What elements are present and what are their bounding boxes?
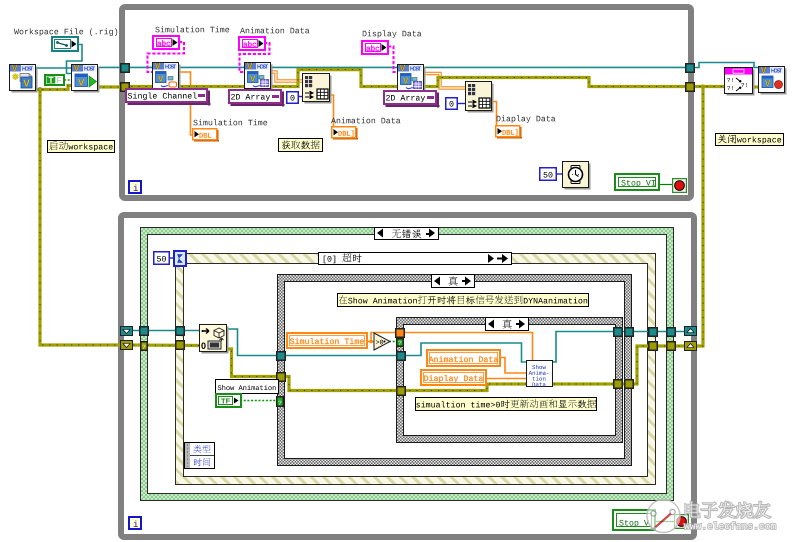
wire string sim time bbox=[148, 42, 185, 72]
tunnel error event right bbox=[648, 341, 658, 351]
boolean control Show Animation bbox=[215, 393, 242, 408]
int constant 50 (wait) bbox=[539, 167, 558, 182]
wire TF to start bbox=[64, 79, 72, 81]
wire error vertical to loop2 bbox=[690, 87, 703, 347]
event structure (diagonal stripe border) bbox=[175, 253, 656, 485]
wire sim time to tunnel bbox=[371, 333, 397, 342]
greater than zero node bbox=[373, 332, 392, 352]
wire stop_vi bbox=[658, 184, 674, 186]
svg-text:V: V bbox=[155, 62, 161, 71]
while loop 1 (top) bbox=[119, 4, 694, 201]
wire ref out to SR bbox=[551, 332, 690, 363]
combo constant 2D Array (1) bbox=[228, 89, 285, 107]
subVI: get Animation Data bbox=[244, 62, 273, 91]
while loop 2 (bottom) bbox=[118, 212, 697, 540]
svg-text:HOST: HOST bbox=[410, 66, 422, 72]
boolean control Stop_VI bbox=[614, 173, 660, 191]
svg-text:V: V bbox=[403, 77, 409, 86]
index array node 2 bbox=[465, 81, 494, 113]
wire session to close VI bbox=[692, 63, 759, 68]
comment 启动workspace bbox=[47, 140, 115, 153]
comment 获取数据 bbox=[278, 138, 323, 152]
node Show Animation Data bbox=[526, 360, 553, 387]
svg-text:V: V bbox=[78, 78, 85, 89]
wire >0 to selector bbox=[389, 341, 396, 343]
orange label Simulation Time bbox=[286, 332, 368, 349]
wire 50 timeout bbox=[169, 257, 175, 259]
listbox 类型/时间 bbox=[184, 442, 215, 469]
wire dbl anim bbox=[329, 95, 336, 132]
wire error merge to close bbox=[753, 85, 759, 88]
label Simulation Time (dbl) bbox=[193, 118, 269, 131]
comment simualtion time>0时... bbox=[415, 397, 597, 411]
DBL array indicator Display Data bbox=[495, 125, 522, 139]
wire disp data label to node bbox=[486, 378, 527, 380]
svg-text:V: V bbox=[765, 79, 771, 88]
tunnel teal event left bbox=[175, 326, 185, 336]
svg-text:HOST: HOST bbox=[165, 64, 177, 70]
shift register teal right bbox=[684, 326, 697, 336]
wait ms node bbox=[562, 161, 591, 190]
tunnel error loop1 right bbox=[685, 82, 695, 92]
tunnel error case2 right bbox=[613, 379, 623, 389]
string terminal Animation Data bbox=[238, 36, 266, 51]
label Animation Data (dbl) bbox=[331, 116, 402, 129]
event label [0] 超时 bbox=[318, 252, 512, 265]
wire error tunnel to merge bbox=[692, 85, 726, 88]
svg-text:HOST: HOST bbox=[22, 66, 34, 72]
svg-text:0: 0 bbox=[201, 341, 206, 351]
svg-text:✱: ✱ bbox=[12, 73, 19, 82]
svg-text:V: V bbox=[247, 62, 253, 71]
svg-text:HOST: HOST bbox=[771, 68, 783, 74]
wire stop_v loop2 bbox=[655, 521, 676, 523]
label Simulation Time (top) bbox=[155, 25, 231, 38]
tunnel teal event right bbox=[648, 327, 658, 337]
subVI: DynaKit open workspace bbox=[9, 64, 38, 93]
loop condition terminal (loop2) bbox=[674, 514, 689, 529]
index array node 1 bbox=[302, 73, 332, 104]
int constant 50 (timeout) bbox=[153, 251, 171, 266]
svg-text:V: V bbox=[250, 75, 256, 84]
wire error vi to case1 bbox=[226, 349, 280, 377]
watermark www.elecfans.com bbox=[684, 519, 789, 534]
wire error loop1 b bbox=[422, 78, 690, 87]
subVI: get Display Data bbox=[397, 64, 426, 93]
shift register teal left bbox=[120, 326, 133, 336]
watermark 电子发烧友 text bbox=[683, 500, 793, 522]
wire error start->tunnel bbox=[96, 85, 126, 88]
tunnel error case1 right bbox=[624, 379, 634, 389]
DBL array indicator Animation Data bbox=[331, 126, 358, 140]
wire sim time in case2 bbox=[403, 333, 533, 363]
wire array 2d arr 2 bbox=[423, 74, 467, 89]
tunnel teal case2 left bbox=[396, 351, 406, 361]
tunnel teal case1 left bbox=[276, 351, 286, 361]
svg-text:HOST: HOST bbox=[257, 64, 269, 70]
wire array 2d arr 1 bbox=[269, 72, 303, 81]
subVI: DynaKit close workspace bbox=[758, 66, 787, 95]
svg-text:T: T bbox=[49, 76, 54, 85]
wire ref to show node bbox=[402, 343, 527, 362]
wire error case1 to case2 bbox=[282, 377, 400, 391]
DBL indicator Simulation Time bbox=[192, 128, 219, 142]
wire ref case1->case2 bbox=[282, 355, 400, 357]
wire sim time to >0 bbox=[367, 341, 375, 343]
combo constant 2D Array (2) bbox=[383, 90, 440, 108]
string terminal Simulation Time bbox=[152, 35, 180, 50]
case structure: True (inner) bbox=[396, 317, 623, 443]
tunnel teal case1 right bbox=[624, 327, 634, 337]
wire idx0 b bbox=[457, 103, 467, 105]
path control Workspace File bbox=[51, 36, 79, 52]
int constant 0 (2) bbox=[445, 97, 459, 111]
label Display Data (top) bbox=[362, 29, 423, 42]
tunnel teal green-case right bbox=[666, 327, 676, 337]
subVI: get Simulation Time bbox=[152, 62, 181, 91]
subVI: DynaKit get data references bbox=[199, 324, 229, 354]
merge errors node bbox=[724, 67, 755, 96]
wire error down to loop2 bbox=[40, 88, 126, 345]
subVI: DynaKit start bbox=[71, 64, 100, 93]
string terminal Display Data bbox=[361, 40, 389, 55]
wire 50 wait bbox=[556, 173, 564, 175]
tunnel error event left bbox=[175, 340, 185, 350]
label Diaplay Data (dbl) bbox=[496, 114, 557, 127]
svg-text:TF: TF bbox=[221, 397, 231, 406]
wire string anim data bbox=[240, 43, 270, 72]
selector ? case2 (bool) bbox=[396, 338, 404, 347]
svg-text:V: V bbox=[761, 66, 767, 75]
case structure: True (outer) bbox=[277, 274, 632, 466]
wire session across loop1 bbox=[96, 66, 690, 68]
wire idx0 a bbox=[298, 96, 303, 98]
tunnel error loop1 left bbox=[120, 82, 130, 92]
selector label 真 (outer case) bbox=[431, 274, 475, 288]
comment 关闭workspace bbox=[715, 133, 784, 146]
label Show Animation bbox=[215, 379, 279, 394]
tunnel error green-case right bbox=[666, 341, 676, 351]
wire ref to case bbox=[226, 329, 280, 356]
label Animation Data (top) bbox=[240, 26, 311, 39]
orange label Animation Data bbox=[426, 349, 501, 367]
wire error case1 out up bbox=[630, 346, 688, 384]
svg-text:V: V bbox=[158, 75, 164, 84]
comment 在Show Animation打开时... bbox=[337, 293, 589, 307]
watermark elecfans logo bbox=[640, 492, 793, 540]
combo constant Single Channel bbox=[125, 88, 211, 106]
selector ? case1 (bool) bbox=[276, 396, 284, 407]
wire anim data label to node bbox=[500, 358, 527, 374]
selector ? green-case (error) bbox=[140, 341, 148, 351]
iteration terminal loop2 bbox=[128, 516, 142, 530]
svg-text:V: V bbox=[400, 64, 406, 73]
tunnel teal loop1 right bbox=[685, 63, 695, 73]
tunnel error case2 left bbox=[396, 386, 406, 396]
wire error loop1 a bbox=[124, 70, 399, 87]
label Workspace File (.rig) bbox=[14, 27, 120, 40]
orange label Diaplay Data bbox=[420, 369, 487, 386]
tunnel orange case2 bbox=[395, 328, 405, 338]
wire dbl disp bbox=[491, 102, 497, 128]
int constant 0 (1) bbox=[286, 91, 300, 105]
wire show anim to selector bbox=[240, 400, 277, 402]
wire error inside case2 bbox=[402, 384, 628, 391]
shift register error left bbox=[120, 340, 133, 350]
case structure: no-error (green checkered) bbox=[140, 227, 674, 501]
selector label 真 (inner case) bbox=[485, 317, 529, 331]
wire path to start VI bbox=[67, 45, 83, 74]
svg-text:F: F bbox=[57, 76, 62, 85]
svg-text:V: V bbox=[74, 64, 80, 73]
boolean TF constant (start) bbox=[44, 74, 65, 86]
svg-text:HOST: HOST bbox=[84, 66, 96, 72]
shift register error right bbox=[684, 341, 697, 351]
svg-text:V: V bbox=[23, 79, 30, 90]
event timeout terminal bbox=[173, 250, 187, 267]
wire session open->start bbox=[35, 67, 72, 69]
loop condition terminal (loop1) bbox=[672, 178, 687, 193]
selector label 无错误 bbox=[374, 227, 439, 240]
tunnel teal green-case left bbox=[139, 326, 149, 336]
wire error loop2 left bbox=[126, 343, 202, 347]
wire string disp data bbox=[388, 47, 399, 73]
iteration terminal loop1 bbox=[128, 180, 142, 194]
wire error open->start bbox=[35, 86, 72, 90]
boolean control Stop_V (loop2) bbox=[612, 509, 656, 531]
tunnel teal case2 right bbox=[613, 327, 623, 337]
wire loop2 ref left bbox=[126, 330, 210, 332]
tunnel teal loop1 left bbox=[120, 63, 130, 73]
wire dbl sim time bbox=[180, 72, 194, 135]
tunnel error case1 left bbox=[276, 372, 286, 382]
